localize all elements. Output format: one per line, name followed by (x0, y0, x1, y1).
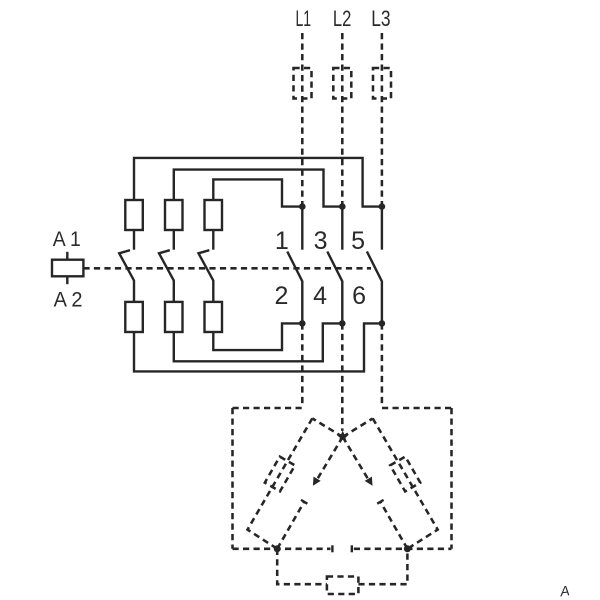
winding V loop left (dashed) (277, 549, 327, 584)
star ray to left vertex (dashed) (312, 418, 342, 437)
svg-text:L2: L2 (333, 6, 351, 31)
winding U coil body (rotated dashed rect) (265, 457, 295, 492)
main contact 1-2 (287, 207, 302, 324)
node L2 bottom junction (339, 320, 346, 327)
fuse F2 (dashed) (333, 68, 351, 99)
winding V coil body (dashed rect) (327, 577, 359, 595)
winding W (dashed diagonal, right) (373, 418, 438, 548)
wire from resistor R1 top to node L3 (134, 158, 382, 207)
resistor R4 (125, 302, 143, 332)
delta link terminal left (T-bar) (331, 545, 333, 552)
motor enclosure top edge right (dashed) (382, 407, 452, 410)
svg-text:6: 6 (352, 282, 366, 310)
resistor R3 (205, 200, 223, 230)
delta link terminal right (T-bar) (351, 545, 353, 552)
node L3 bottom junction (379, 320, 386, 327)
load wire T3 (dashed) (381, 323, 384, 405)
winding W coil body (rotated dashed rect) (390, 457, 420, 492)
motor enclosure bottom edge right (dashed) (354, 548, 452, 551)
fuse F3 (dashed) (373, 68, 391, 99)
wire from resistor R3 top to node L1 (213, 179, 302, 206)
supply wire L3 (dashed) (381, 33, 384, 207)
winding V loop right (dashed) (358, 549, 407, 584)
motor enclosure left edge (dashed) (231, 408, 234, 549)
supply wire L2 (dashed) (341, 33, 344, 207)
motor enclosure bottom edge left (dashed) (233, 548, 331, 551)
star link right (dashed ray with arrow) (343, 437, 370, 482)
supply wire L1 (dashed) (301, 33, 304, 207)
wire from resistor R2 top to node L2 (174, 170, 342, 207)
star link right arrowhead (365, 477, 373, 486)
winding U inner strand (dashed with T-bar) (277, 502, 304, 549)
auxiliary contact K1a (left column 1) (119, 230, 134, 302)
star ray to right vertex (dashed) (343, 418, 373, 437)
motor enclosure top edge left (dashed) (233, 407, 303, 410)
node motor right junction (404, 545, 411, 552)
svg-text:1: 1 (275, 227, 289, 255)
mechanical linkage (dashed) (83, 267, 371, 270)
svg-text:A 1: A 1 (53, 227, 81, 251)
wire from resistor R4 bottom to node L3 bottom (134, 323, 382, 371)
svg-text:A: A (558, 582, 570, 599)
winding U (dashed diagonal, left) (248, 418, 313, 548)
load wire T2 (dashed) (341, 323, 344, 431)
node motor left junction (274, 545, 281, 552)
auxiliary contact K2a (left column 2) (159, 230, 174, 302)
resistor R2 (165, 200, 183, 230)
star link left arrowhead (313, 477, 321, 486)
svg-text:3: 3 (314, 227, 328, 255)
node L1 bottom junction (299, 320, 306, 327)
node L1 top junction (299, 203, 306, 210)
star point (337, 431, 349, 442)
resistor R5 (165, 302, 183, 332)
node L3 top junction (379, 203, 386, 210)
svg-text:L1: L1 (296, 6, 312, 31)
star link left (dashed ray with arrow) (316, 437, 343, 482)
node L2 top junction (339, 203, 346, 210)
main contact 5-6 (367, 207, 382, 324)
svg-text:5: 5 (351, 227, 365, 255)
winding W inner strand (dashed with T-bar) (380, 502, 407, 549)
resistor R1 (125, 200, 143, 230)
auxiliary contact K3a (left column 3) (199, 230, 214, 302)
svg-text:A 2: A 2 (54, 287, 83, 311)
fuse F1 (dashed) (294, 68, 312, 99)
motor enclosure right edge (dashed) (450, 408, 453, 549)
coil A1/A2 (52, 252, 83, 284)
svg-text:L3: L3 (371, 6, 390, 31)
svg-text:2: 2 (275, 282, 289, 310)
svg-text:4: 4 (313, 282, 327, 310)
load wire T1 (dashed) (301, 323, 304, 405)
winding W inner terminal (T-bar) (377, 500, 383, 504)
wire from resistor R5 bottom to node L2 bottom (174, 323, 342, 361)
winding U inner terminal (T-bar) (301, 500, 307, 504)
resistor R6 (205, 302, 223, 332)
wire from resistor R6 bottom to node L1 bottom (213, 323, 302, 350)
main contact 3-4 (327, 207, 342, 324)
